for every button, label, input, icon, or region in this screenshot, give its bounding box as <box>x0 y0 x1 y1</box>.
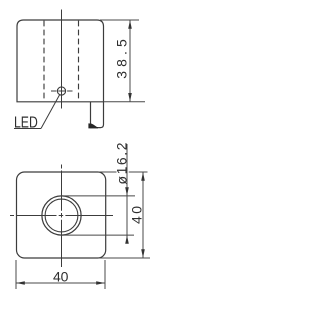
connector boss outline <box>91 102 104 128</box>
LED indicator circle <box>57 87 65 95</box>
arrow left <box>16 281 25 285</box>
svg-text:LED: LED <box>14 114 38 131</box>
outer circle <box>42 196 81 235</box>
hidden edge (dashed) left <box>43 21 45 102</box>
LED leader line <box>41 95 60 129</box>
inner circle <box>45 199 78 232</box>
extension line top <box>100 19 139 21</box>
tangent extension line bottom <box>62 234 135 236</box>
dimension 40 (horizontal, bottom) <box>16 260 105 289</box>
extension line top <box>98 171 117 173</box>
svg-text:ø16.2: ø16.2 <box>113 142 129 184</box>
arrow down <box>128 93 132 102</box>
extension line bottom <box>104 101 146 103</box>
vertical centerline <box>61 165 63 268</box>
arrow up <box>128 20 132 29</box>
axis centerline <box>61 10 63 109</box>
dimension line <box>126 144 128 243</box>
extension line right <box>104 260 106 289</box>
svg-text:40: 40 <box>53 269 69 285</box>
dimension 40 (vertical, right) <box>98 172 150 258</box>
horizontal centerline <box>10 215 113 217</box>
dimension diameter 16.2 <box>62 144 136 243</box>
arrow up <box>141 172 145 181</box>
LED crosshair horizontal <box>51 90 73 92</box>
tangent extension line top <box>62 195 136 197</box>
sensor body outline <box>17 20 104 102</box>
arrow down to top tangent <box>125 187 129 196</box>
arrow up to bottom tangent <box>125 235 129 244</box>
connector dark bushing blob <box>88 123 98 128</box>
dimension line <box>16 282 105 284</box>
square face outline <box>17 172 106 258</box>
arrow down <box>141 249 145 258</box>
dimension 38.5 <box>100 20 145 102</box>
LED label underline <box>14 128 41 130</box>
arrow right <box>96 281 105 285</box>
extension line left <box>15 260 17 289</box>
extension line bottom <box>98 257 150 259</box>
dimension line <box>129 20 131 102</box>
hidden edge (dashed) right <box>78 21 80 102</box>
dimension line <box>142 172 144 258</box>
